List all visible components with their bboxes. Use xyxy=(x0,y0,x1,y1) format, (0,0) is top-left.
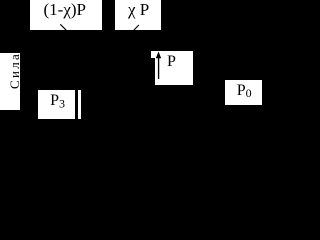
text P3 xyxy=(50,93,65,112)
wire backslash leader xyxy=(60,24,66,30)
label box P0 xyxy=(225,80,262,105)
label box chi P xyxy=(115,0,161,30)
label box P (middle) xyxy=(155,51,194,85)
arrowhead white patch xyxy=(151,51,158,59)
label box P3 xyxy=(38,90,75,119)
text P (middle) xyxy=(167,54,176,70)
white bar (pile column) xyxy=(78,90,82,119)
text (1-chi)P xyxy=(44,1,86,18)
wire slash leader xyxy=(133,25,138,31)
text P0 xyxy=(237,83,252,101)
label box (1-chi)P xyxy=(30,0,103,30)
text chi P xyxy=(128,1,136,18)
axis label Sila (rotated) xyxy=(0,53,20,110)
arrow P (vertical force arrow) xyxy=(150,50,164,82)
leader line from (1-chi)P box xyxy=(0,0,263,140)
